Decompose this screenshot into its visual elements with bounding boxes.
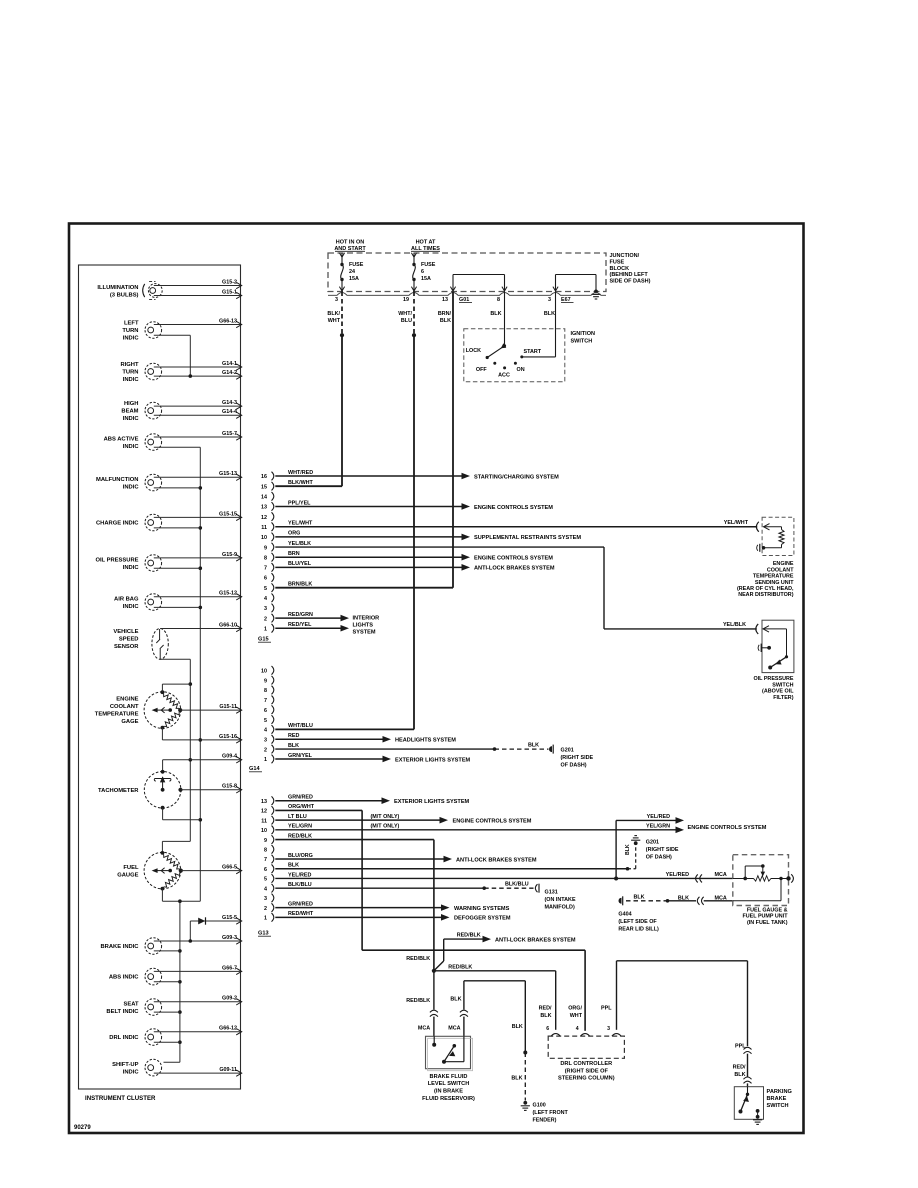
svg-text:7: 7 bbox=[264, 698, 267, 704]
svg-text:RED/WHT: RED/WHT bbox=[288, 911, 314, 917]
svg-text:WHT/: WHT/ bbox=[398, 311, 412, 317]
svg-text:ENGINE CONTROLS SYSTEM: ENGINE CONTROLS SYSTEM bbox=[474, 556, 553, 562]
svg-text:BLK: BLK bbox=[512, 1024, 523, 1030]
wire BRN G15-8 to engine controls system bbox=[275, 551, 553, 562]
wire fuel gauge bottom / lower bus head bbox=[162, 889, 200, 903]
parking brake switch bbox=[734, 1087, 792, 1125]
wire RED/BLK G13-9 down to brake fluid level switch bbox=[275, 833, 434, 970]
wire tachometer to G15-8 bbox=[181, 784, 242, 793]
wire YEL/WHT G15-11 to ECT sending unit bbox=[275, 520, 757, 527]
wire BLK brake fluid switch to ground G100 bbox=[448, 981, 527, 1101]
svg-text:G15-9: G15-9 bbox=[222, 552, 237, 558]
svg-text:G15-8: G15-8 bbox=[222, 784, 237, 790]
svg-text:START: START bbox=[524, 349, 542, 355]
svg-text:BRAKE FLUID: BRAKE FLUID bbox=[430, 1074, 468, 1080]
svg-text:SIDE OF DASH): SIDE OF DASH) bbox=[610, 278, 651, 284]
svg-text:2: 2 bbox=[264, 906, 267, 912]
svg-text:8: 8 bbox=[264, 555, 267, 561]
svg-text:PPL: PPL bbox=[601, 1006, 612, 1012]
svg-text:G15-12: G15-12 bbox=[219, 591, 237, 597]
svg-text:OF DASH): OF DASH) bbox=[646, 854, 672, 860]
svg-text:BRN/: BRN/ bbox=[438, 311, 452, 317]
svg-text:90279: 90279 bbox=[74, 1125, 91, 1131]
svg-text:ACC: ACC bbox=[498, 372, 510, 378]
svg-text:LEFT: LEFT bbox=[124, 321, 139, 327]
ECT sending unit connector bbox=[756, 522, 758, 532]
svg-text:YEL/RED: YEL/RED bbox=[288, 872, 311, 878]
svg-text:DEFOGGER SYSTEM: DEFOGGER SYSTEM bbox=[454, 916, 511, 922]
svg-text:10: 10 bbox=[261, 535, 267, 541]
wire ECT gage top feed bbox=[162, 684, 190, 692]
ground G404 (left side of rear lid sill) bbox=[618, 896, 659, 932]
svg-text:FUEL: FUEL bbox=[123, 865, 139, 871]
svg-text:G13: G13 bbox=[258, 931, 269, 937]
svg-text:YEL/RED: YEL/RED bbox=[647, 814, 670, 820]
wire BLK fuse pin 8 to ignition switch bbox=[490, 292, 504, 345]
wire AIR BAG lamp lower lead to bus bbox=[154, 606, 201, 608]
wire OIL PRESSURE lamp lower lead to bus bbox=[154, 567, 201, 569]
svg-text:ORG/WHT: ORG/WHT bbox=[288, 804, 315, 810]
svg-text:BLK: BLK bbox=[540, 1013, 551, 1019]
wire BLK/WHT fuse pin 3 to G15-15 bbox=[275, 292, 344, 487]
svg-text:EXTERIOR LIGHTS SYSTEM: EXTERIOR LIGHTS SYSTEM bbox=[394, 799, 470, 805]
svg-text:BELT INDIC: BELT INDIC bbox=[106, 1009, 139, 1015]
svg-text:(M/T ONLY): (M/T ONLY) bbox=[371, 814, 400, 820]
svg-text:ENGINE CONTROLS SYSTEM: ENGINE CONTROLS SYSTEM bbox=[688, 825, 767, 831]
svg-text:G15-1: G15-1 bbox=[222, 289, 237, 295]
wire ORG G15-10 to supplemental restraints system bbox=[275, 531, 581, 542]
wire VSS bottom / feed chain bbox=[160, 659, 192, 853]
ignition switch (dashed box) bbox=[464, 329, 565, 382]
svg-text:3: 3 bbox=[548, 297, 551, 303]
wire RED/GRN G15-2 to interior lights system bbox=[275, 612, 349, 622]
svg-text:(ON INTAKE: (ON INTAKE bbox=[545, 897, 576, 903]
svg-text:FUSE: FUSE bbox=[421, 262, 436, 268]
svg-text:2: 2 bbox=[264, 616, 267, 622]
svg-text:BLK/WHT: BLK/WHT bbox=[288, 480, 314, 486]
svg-text:19: 19 bbox=[403, 297, 409, 303]
svg-text:INDIC: INDIC bbox=[123, 604, 140, 610]
svg-text:BLK/: BLK/ bbox=[327, 311, 340, 317]
svg-text:10: 10 bbox=[261, 669, 267, 675]
svg-text:G15-5: G15-5 bbox=[222, 915, 237, 921]
svg-text:12: 12 bbox=[261, 515, 267, 521]
svg-text:AIR BAG: AIR BAG bbox=[114, 596, 139, 602]
svg-text:G14-3: G14-3 bbox=[222, 400, 237, 406]
svg-text:EXTERIOR LIGHTS SYSTEM: EXTERIOR LIGHTS SYSTEM bbox=[395, 757, 471, 763]
svg-text:HOT IN ON: HOT IN ON bbox=[336, 240, 364, 246]
svg-text:11: 11 bbox=[261, 818, 267, 824]
svg-text:SENSOR: SENSOR bbox=[114, 644, 139, 650]
fuel gauge bbox=[117, 851, 183, 890]
junction/fuse block label bbox=[610, 253, 651, 284]
svg-text:BLOCK: BLOCK bbox=[610, 266, 630, 272]
svg-text:GRN/RED: GRN/RED bbox=[288, 795, 313, 801]
svg-text:BEAM: BEAM bbox=[121, 409, 138, 415]
svg-text:SWITCH: SWITCH bbox=[571, 338, 593, 344]
svg-text:G131: G131 bbox=[545, 889, 558, 895]
svg-text:MALFUNCTION: MALFUNCTION bbox=[96, 477, 139, 483]
fuse block pin labels bbox=[335, 297, 551, 303]
ground E67 bbox=[561, 290, 601, 304]
wire ECT gage bottom to G15-16 bbox=[162, 728, 241, 744]
wire BLK G13-6 to ground G201 bbox=[275, 844, 635, 870]
wire BLU/ORG G13-7 to anti-lock brakes system bbox=[275, 853, 537, 864]
svg-text:ANTI-LOCK BRAKES SYSTEM: ANTI-LOCK BRAKES SYSTEM bbox=[495, 937, 576, 943]
wire BRN/BLK G15-5 from fuse pin 13 bbox=[288, 581, 312, 587]
svg-text:(LEFT FRONT: (LEFT FRONT bbox=[533, 1110, 569, 1116]
svg-text:ENGINE: ENGINE bbox=[773, 561, 794, 567]
svg-text:RED/BLK: RED/BLK bbox=[457, 933, 481, 939]
node HOT IN ON AND START bbox=[334, 240, 366, 258]
svg-text:ORG: ORG bbox=[288, 531, 300, 537]
fuse block internal bridge pin 3 to ground E67 bbox=[553, 275, 596, 292]
svg-text:LIGHTS: LIGHTS bbox=[353, 623, 374, 629]
wire VSS top to G66-10 bbox=[160, 622, 242, 631]
svg-text:6: 6 bbox=[546, 1026, 549, 1032]
label interior lights system bbox=[353, 616, 380, 636]
wire BLK/WHT G15-15 from fuse bbox=[288, 480, 314, 486]
svg-text:4: 4 bbox=[576, 1026, 579, 1032]
wire YEL/RED G13-5 to fuel gauge unit and engine controls bbox=[275, 872, 733, 883]
svg-text:RIGHT: RIGHT bbox=[120, 362, 138, 368]
svg-text:LOCK: LOCK bbox=[466, 348, 481, 354]
svg-text:STEERING COLUMN): STEERING COLUMN) bbox=[558, 1076, 615, 1082]
svg-text:RED/GRN: RED/GRN bbox=[288, 612, 313, 618]
svg-text:7: 7 bbox=[264, 566, 267, 572]
svg-text:3: 3 bbox=[264, 896, 267, 902]
instrument cluster box bbox=[79, 265, 241, 1089]
connector G14 pins bbox=[249, 666, 274, 772]
svg-text:3: 3 bbox=[264, 606, 267, 612]
indicator lamp SHIFT-UP INDIC bbox=[112, 1059, 242, 1076]
wire BLK/BLU G13-4 to ground G131 bbox=[275, 882, 533, 890]
bus: lower lamp common bus bbox=[164, 901, 182, 1062]
svg-text:4: 4 bbox=[264, 728, 267, 734]
svg-text:BLK: BLK bbox=[625, 844, 631, 855]
svg-text:PARKING: PARKING bbox=[767, 1089, 792, 1095]
wire RED/BLK branch to anti-lock brakes system bbox=[434, 933, 576, 971]
svg-text:1: 1 bbox=[264, 757, 267, 763]
svg-text:YEL/GRN: YEL/GRN bbox=[646, 823, 670, 829]
svg-text:BLU/YEL: BLU/YEL bbox=[288, 561, 312, 567]
svg-text:11: 11 bbox=[261, 525, 267, 531]
indicator lamp SEAT BELT INDIC bbox=[106, 996, 241, 1016]
svg-text:RED/BLK: RED/BLK bbox=[406, 956, 430, 962]
svg-text:TEMPERATURE: TEMPERATURE bbox=[753, 574, 794, 580]
svg-text:9: 9 bbox=[264, 838, 267, 844]
diode D1 to G15-5 bbox=[189, 915, 242, 943]
svg-text:(RIGHT SIDE: (RIGHT SIDE bbox=[561, 755, 594, 761]
junction/fuse block (dashed box) bbox=[328, 253, 606, 292]
svg-text:BLK: BLK bbox=[544, 311, 555, 317]
svg-text:(IN FUEL TANK): (IN FUEL TANK) bbox=[747, 920, 788, 926]
svg-text:FILTER): FILTER) bbox=[773, 695, 793, 701]
wire G09-4 feed row bbox=[163, 754, 242, 772]
indicator lamp ABS ACTIVE INDIC bbox=[104, 431, 242, 450]
wire RED/WHT G13-1 to defogger system bbox=[275, 911, 511, 922]
svg-text:GAUGE: GAUGE bbox=[117, 873, 138, 879]
svg-text:SYSTEM: SYSTEM bbox=[353, 630, 376, 636]
indicator lamp OIL PRESSURE INDIC bbox=[95, 552, 241, 572]
svg-text:BLK/BLU: BLK/BLU bbox=[288, 882, 312, 888]
svg-text:9: 9 bbox=[264, 678, 267, 684]
svg-text:STARTING/CHARGING SYSTEM: STARTING/CHARGING SYSTEM bbox=[474, 474, 559, 480]
svg-text:YEL/BLK: YEL/BLK bbox=[288, 541, 311, 547]
wire YEL/GRN G13-10 to engine controls system bbox=[275, 823, 766, 833]
svg-text:RED: RED bbox=[288, 733, 299, 739]
svg-text:TEMPERATURE: TEMPERATURE bbox=[95, 712, 139, 718]
svg-text:(BEHIND LEFT: (BEHIND LEFT bbox=[610, 272, 649, 278]
svg-text:NEAR DISTRIBUTOR): NEAR DISTRIBUTOR) bbox=[738, 592, 794, 598]
svg-text:8: 8 bbox=[264, 688, 267, 694]
brake fluid level switch bbox=[422, 1036, 475, 1102]
svg-text:INTERIOR: INTERIOR bbox=[353, 616, 380, 622]
svg-text:BLK: BLK bbox=[634, 894, 645, 900]
svg-text:6: 6 bbox=[421, 269, 424, 275]
wire SEAT BELT lamp lower lead to bus bbox=[154, 1011, 180, 1013]
svg-text:MCA: MCA bbox=[418, 1026, 430, 1032]
wire RED/YEL G15-1 to interior lights system bbox=[275, 622, 349, 632]
svg-text:13: 13 bbox=[261, 799, 267, 805]
svg-text:G66-13: G66-13 bbox=[219, 318, 237, 324]
svg-text:G14-4: G14-4 bbox=[222, 409, 237, 415]
svg-text:ABS INDIC: ABS INDIC bbox=[109, 975, 139, 981]
svg-text:SENDING UNIT: SENDING UNIT bbox=[755, 580, 794, 586]
svg-text:G66-12: G66-12 bbox=[219, 1026, 237, 1032]
wire DRL lamp lower lead to bus bbox=[154, 1041, 180, 1043]
svg-text:5: 5 bbox=[264, 586, 267, 592]
svg-text:(ABOVE OIL: (ABOVE OIL bbox=[762, 689, 794, 695]
DRL controller bbox=[546, 1026, 624, 1082]
svg-text:TURN: TURN bbox=[122, 328, 138, 334]
svg-text:GRN/YEL: GRN/YEL bbox=[288, 753, 313, 759]
svg-text:G66-5: G66-5 bbox=[222, 865, 237, 871]
svg-text:YEL/WHT: YEL/WHT bbox=[724, 520, 749, 526]
svg-text:SPEED: SPEED bbox=[119, 636, 139, 642]
bus: upper lamp common bus bbox=[154, 447, 202, 901]
svg-text:MCA: MCA bbox=[715, 895, 727, 901]
svg-text:(RIGHT SIDE: (RIGHT SIDE bbox=[646, 847, 679, 853]
svg-text:BLK: BLK bbox=[490, 311, 501, 317]
svg-text:HOT AT: HOT AT bbox=[416, 240, 436, 246]
svg-text:1: 1 bbox=[264, 916, 267, 922]
svg-text:LEVEL SWITCH: LEVEL SWITCH bbox=[428, 1081, 470, 1087]
svg-text:G201: G201 bbox=[646, 839, 659, 845]
svg-text:RED/BLK: RED/BLK bbox=[448, 964, 472, 970]
svg-text:WHT/BLU: WHT/BLU bbox=[288, 723, 313, 729]
svg-text:4: 4 bbox=[264, 596, 267, 602]
svg-text:INDIC: INDIC bbox=[123, 1069, 140, 1075]
svg-text:COOLANT: COOLANT bbox=[110, 704, 139, 710]
svg-text:WHT/RED: WHT/RED bbox=[288, 470, 313, 476]
connector G15 pins bbox=[258, 472, 274, 643]
svg-text:(3 BULBS): (3 BULBS) bbox=[110, 292, 139, 298]
indicator lamp LEFT TURN INDIC bbox=[122, 318, 241, 341]
wire WHT/RED G15-16 to starting/charging system bbox=[275, 470, 559, 481]
svg-text:G15-2: G15-2 bbox=[222, 279, 237, 285]
wire LT BLU G13-11 to engine controls system bbox=[275, 814, 531, 825]
wire BRN/BLK fuse pin 13 to G15-5 bbox=[275, 292, 453, 588]
svg-text:G15: G15 bbox=[258, 637, 269, 643]
svg-text:OIL PRESSURE: OIL PRESSURE bbox=[95, 557, 138, 563]
wire tachometer bottom to bus bbox=[163, 808, 201, 820]
svg-text:LT BLU: LT BLU bbox=[288, 814, 307, 820]
svg-text:G66-10: G66-10 bbox=[219, 622, 237, 628]
svg-text:OFF: OFF bbox=[476, 367, 487, 373]
svg-text:5: 5 bbox=[264, 877, 267, 883]
svg-text:6: 6 bbox=[264, 708, 267, 714]
fuse block internal bridge to pins 13 and 8 bbox=[450, 275, 507, 292]
svg-text:G14-1: G14-1 bbox=[222, 361, 237, 367]
svg-text:HEADLIGHTS SYSTEM: HEADLIGHTS SYSTEM bbox=[395, 738, 456, 744]
svg-text:BLK: BLK bbox=[528, 743, 539, 749]
svg-text:INDIC: INDIC bbox=[123, 416, 140, 422]
svg-text:(LEFT SIDE OF: (LEFT SIDE OF bbox=[618, 919, 657, 925]
wire LEFT TURN lamp to RIGHT TURN G14-2 wire bbox=[154, 335, 192, 378]
wire GRN/RED G13-13 to exterior lights system bbox=[275, 795, 469, 806]
fuel gauge & fuel pump unit bbox=[733, 855, 794, 926]
svg-text:BRAKE: BRAKE bbox=[767, 1096, 787, 1102]
svg-text:G201: G201 bbox=[561, 747, 574, 753]
wire BLU/YEL G15-7 to anti-lock brakes system bbox=[275, 561, 555, 572]
indicator lamp ILLUMINATION (3 BULBS) bbox=[97, 279, 241, 299]
svg-text:G09-4: G09-4 bbox=[222, 754, 237, 760]
svg-text:6: 6 bbox=[264, 867, 267, 873]
svg-text:FUEL GAUGE &: FUEL GAUGE & bbox=[747, 907, 788, 913]
svg-text:INDIC: INDIC bbox=[123, 377, 140, 383]
wire YEL/RED branch to engine controls system bbox=[616, 814, 684, 879]
wire MALFUNCTION lamp lower lead to bus bbox=[154, 487, 201, 489]
wire ABS lamp lower lead to bus bbox=[154, 981, 180, 983]
wire BLK to ground G404 bbox=[626, 894, 733, 905]
svg-text:8: 8 bbox=[497, 297, 500, 303]
wire PPL parking brake switch to DRL controller pin 3 bbox=[601, 961, 751, 1087]
svg-text:8: 8 bbox=[264, 848, 267, 854]
svg-text:13: 13 bbox=[261, 505, 267, 511]
indicator lamp CHARGE INDIC bbox=[96, 511, 242, 531]
vehicle speed sensor bbox=[113, 629, 168, 660]
svg-text:SEAT: SEAT bbox=[123, 1001, 138, 1007]
ground G201 (right side of dash) bbox=[549, 745, 594, 769]
svg-text:BRN: BRN bbox=[288, 551, 300, 557]
svg-text:9: 9 bbox=[264, 545, 267, 551]
engine coolant temperature gage bbox=[95, 690, 183, 729]
svg-text:BLU/ORG: BLU/ORG bbox=[288, 853, 313, 859]
svg-text:JUNCTION/: JUNCTION/ bbox=[610, 253, 640, 259]
indicator lamp RIGHT TURN INDIC bbox=[120, 361, 241, 383]
svg-text:RED/YEL: RED/YEL bbox=[288, 622, 312, 628]
svg-text:VEHICLE: VEHICLE bbox=[113, 629, 138, 635]
svg-text:15: 15 bbox=[261, 484, 267, 490]
svg-text:(REAR OF CYL HEAD,: (REAR OF CYL HEAD, bbox=[737, 586, 794, 592]
svg-text:DRL INDIC: DRL INDIC bbox=[109, 1035, 139, 1041]
ignition switch contacts bbox=[466, 343, 542, 378]
indicator lamp HIGH BEAM INDIC bbox=[121, 400, 241, 422]
svg-text:G15-7: G15-7 bbox=[222, 431, 237, 437]
svg-text:MANIFOLD): MANIFOLD) bbox=[545, 904, 575, 910]
ground G201 (right side of dash) second bbox=[631, 836, 679, 861]
node RED/BLK junction bbox=[432, 969, 436, 973]
svg-text:G09-11: G09-11 bbox=[219, 1067, 237, 1073]
ground G100 (left front fender) bbox=[521, 1101, 569, 1124]
svg-text:TURN: TURN bbox=[122, 370, 138, 376]
svg-text:ILLUMINATION: ILLUMINATION bbox=[97, 285, 138, 291]
svg-text:INSTRUMENT CLUSTER: INSTRUMENT CLUSTER bbox=[85, 1095, 156, 1102]
svg-text:SHIFT-UP: SHIFT-UP bbox=[112, 1062, 139, 1068]
page border frame bbox=[69, 224, 804, 1134]
svg-text:16: 16 bbox=[261, 474, 267, 480]
indicator lamp ABS INDIC bbox=[109, 965, 242, 985]
svg-text:G09-3: G09-3 bbox=[222, 935, 237, 941]
svg-text:G404: G404 bbox=[618, 911, 631, 917]
svg-text:WARNING SYSTEMS: WARNING SYSTEMS bbox=[454, 906, 510, 912]
svg-text:YEL/BLK: YEL/BLK bbox=[723, 622, 746, 628]
fuse block connector bar bbox=[328, 293, 606, 296]
svg-text:(M/T ONLY): (M/T ONLY) bbox=[371, 824, 400, 830]
svg-text:7: 7 bbox=[264, 857, 267, 863]
wire ORG/WHT G13-12 to DRL controller bbox=[275, 804, 585, 1031]
wire BRAKE lamp lower lead to bus bbox=[154, 950, 180, 952]
svg-text:TACHOMETER: TACHOMETER bbox=[98, 788, 139, 794]
svg-text:G14-2: G14-2 bbox=[222, 370, 237, 376]
svg-text:INDIC: INDIC bbox=[123, 565, 140, 571]
svg-text:HIGH: HIGH bbox=[124, 401, 139, 407]
svg-text:6: 6 bbox=[264, 576, 267, 582]
svg-text:ENGINE: ENGINE bbox=[116, 697, 138, 703]
svg-text:3: 3 bbox=[264, 737, 267, 743]
node HOT AT ALL TIMES bbox=[411, 240, 440, 258]
wire GRN/YEL G14-1 to exterior lights system bbox=[275, 753, 470, 764]
wire YEL/BLK G15-9 to oil pressure switch bbox=[275, 541, 757, 629]
svg-text:FLUID RESERVOIR): FLUID RESERVOIR) bbox=[422, 1096, 475, 1102]
svg-text:GAGE: GAGE bbox=[121, 719, 138, 725]
svg-text:SUPPLEMENTAL RESTRAINTS SYSTEM: SUPPLEMENTAL RESTRAINTS SYSTEM bbox=[474, 535, 581, 541]
svg-text:ABS ACTIVE: ABS ACTIVE bbox=[104, 436, 139, 442]
svg-text:G15-13: G15-13 bbox=[219, 471, 237, 477]
wire PPL/YEL G15-13 to engine controls system bbox=[275, 500, 553, 511]
svg-text:RED/BLK: RED/BLK bbox=[288, 833, 312, 839]
svg-text:10: 10 bbox=[261, 828, 267, 834]
svg-text:WHT: WHT bbox=[570, 1013, 583, 1019]
wire ECT gage to G15-11 bbox=[180, 704, 242, 713]
svg-text:15A: 15A bbox=[421, 276, 431, 282]
svg-text:4: 4 bbox=[264, 886, 267, 892]
svg-text:YEL/WHT: YEL/WHT bbox=[288, 521, 313, 527]
svg-text:13: 13 bbox=[442, 297, 448, 303]
svg-text:BRAKE INDIC: BRAKE INDIC bbox=[100, 944, 139, 950]
wire RED G14-3 to headlights system bbox=[275, 733, 456, 744]
svg-text:G100: G100 bbox=[533, 1102, 546, 1108]
svg-text:FENDER): FENDER) bbox=[533, 1117, 557, 1123]
indicator lamp MALFUNCTION INDIC bbox=[96, 471, 242, 491]
svg-text:1: 1 bbox=[264, 626, 267, 632]
svg-text:FUSE: FUSE bbox=[349, 262, 364, 268]
ground G131 (on intake manifold) bbox=[535, 884, 576, 911]
svg-text:MCA: MCA bbox=[448, 1026, 460, 1032]
svg-text:ENGINE CONTROLS SYSTEM: ENGINE CONTROLS SYSTEM bbox=[474, 505, 553, 511]
svg-text:BLK: BLK bbox=[734, 1072, 745, 1078]
svg-text:G15-15: G15-15 bbox=[219, 511, 237, 517]
wire BLK G14-2 to ground G201 bbox=[275, 743, 548, 751]
fuse 24 15A bbox=[339, 253, 363, 292]
svg-text:BLK: BLK bbox=[511, 1075, 522, 1081]
svg-text:BLK: BLK bbox=[450, 997, 461, 1003]
wire fuel gauge to G66-5 bbox=[181, 865, 242, 874]
wire BLK ignition START to fuse pin 3 bbox=[523, 292, 556, 357]
wire WHT/BLU G14-4 from fuse pin 19 bbox=[288, 723, 313, 729]
svg-text:ORG/: ORG/ bbox=[568, 1006, 582, 1012]
